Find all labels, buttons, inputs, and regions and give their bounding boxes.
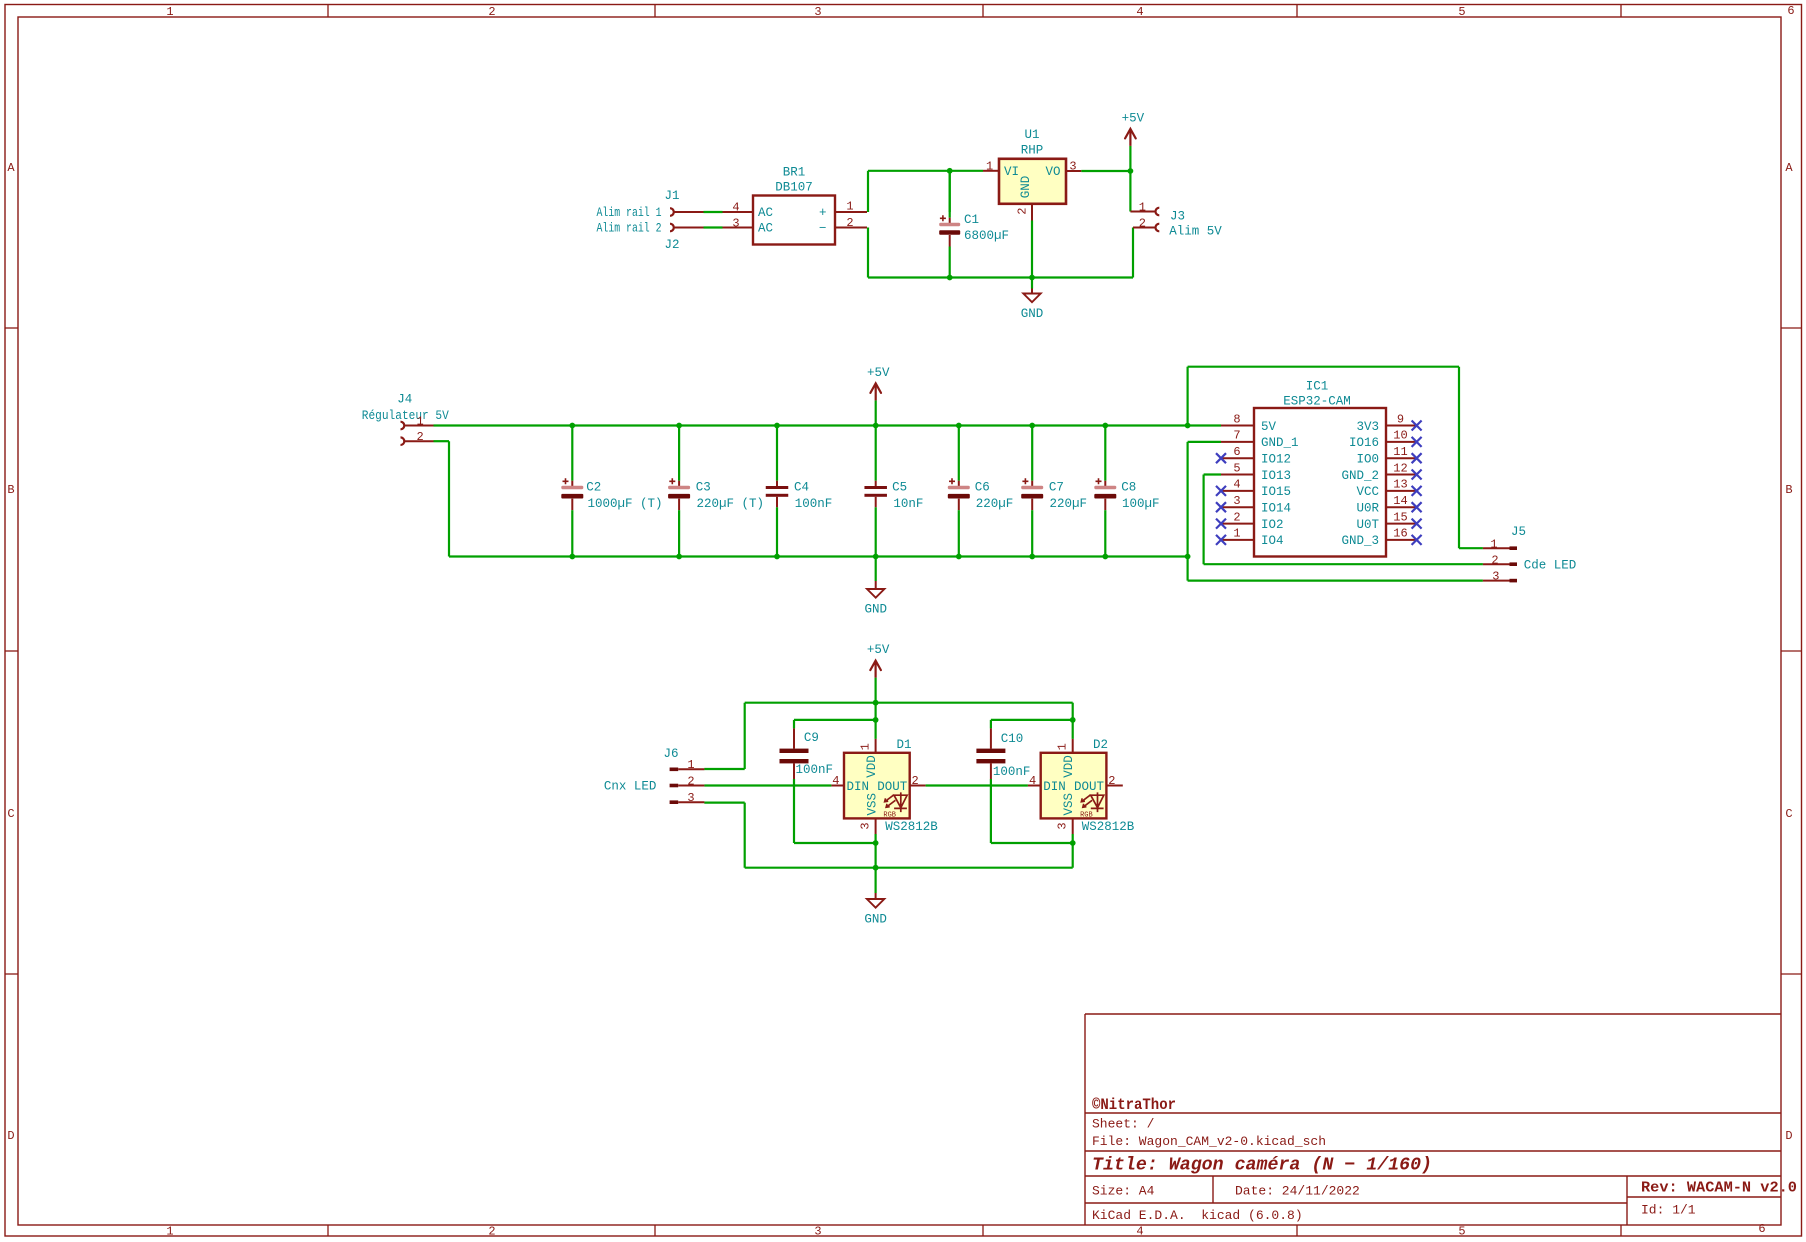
svg-text:1: 1 [1233,527,1240,541]
svg-text:C7: C7 [1049,481,1064,495]
svg-text:Alim 5V: Alim 5V [1169,225,1222,239]
svg-text:1: 1 [859,743,873,750]
svg-text:2: 2 [1491,554,1498,568]
svg-text:GND: GND [1021,307,1044,321]
svg-text:Alim rail 2: Alim rail 2 [597,222,662,236]
svg-text:3V3: 3V3 [1356,420,1379,434]
svg-text:100nF: 100nF [993,765,1031,779]
svg-text:C6: C6 [975,481,990,495]
svg-text:D: D [7,1129,14,1143]
svg-text:6: 6 [1758,1222,1765,1236]
svg-text:4: 4 [732,201,739,215]
svg-text:3: 3 [1233,494,1240,508]
svg-text:KiCad E.D.A. kicad (6.0.8): KiCad E.D.A. kicad (6.0.8) [1092,1208,1303,1223]
svg-text:Sheet: /: Sheet: / [1092,1117,1155,1132]
svg-text:GND: GND [864,603,887,617]
svg-text:J2: J2 [664,238,679,252]
svg-text:C5: C5 [892,481,907,495]
svg-text:5: 5 [1233,461,1240,475]
svg-text:J5: J5 [1511,525,1526,539]
svg-text:3: 3 [814,5,821,19]
svg-text:+5V: +5V [1122,111,1145,125]
svg-text:1: 1 [846,200,853,214]
svg-text:D2: D2 [1093,738,1108,752]
svg-text:10: 10 [1393,429,1407,443]
svg-text:14: 14 [1393,494,1407,508]
svg-text:Date: 24/11/2022: Date: 24/11/2022 [1235,1184,1360,1199]
svg-text:IO13: IO13 [1261,469,1291,483]
svg-text:1: 1 [416,414,423,428]
svg-text:5: 5 [1458,1225,1465,1239]
svg-text:VI: VI [1004,165,1019,179]
svg-text:100µF: 100µF [1122,497,1160,511]
svg-text:16: 16 [1393,527,1407,541]
svg-text:VDD: VDD [1062,755,1076,778]
svg-text:IO2: IO2 [1261,518,1284,532]
svg-text:2: 2 [416,430,423,444]
svg-text:2: 2 [911,774,918,788]
svg-text:100nF: 100nF [796,763,834,777]
svg-text:D1: D1 [896,738,911,752]
svg-text:VO: VO [1045,165,1060,179]
svg-text:1000µF (T): 1000µF (T) [588,497,663,511]
svg-text:RGB: RGB [883,812,896,820]
svg-text:GND: GND [1019,176,1033,199]
svg-text:J3: J3 [1170,210,1185,224]
svg-text:VDD: VDD [865,755,879,778]
svg-text:A: A [7,161,15,175]
svg-text:12: 12 [1393,461,1407,475]
svg-text:IO15: IO15 [1261,485,1291,499]
svg-text:D: D [1785,1129,1792,1143]
svg-text:A: A [1785,161,1793,175]
svg-text:IO16: IO16 [1349,436,1379,450]
svg-text:2: 2 [488,5,495,19]
svg-text:3: 3 [732,217,739,231]
svg-text:VCC: VCC [1356,485,1379,499]
svg-text:C10: C10 [1001,732,1024,746]
svg-text:2: 2 [1016,207,1030,214]
svg-text:WS2812B: WS2812B [1082,820,1135,834]
svg-text:©NitraThor: ©NitraThor [1092,1096,1176,1114]
svg-text:2: 2 [1139,216,1146,230]
svg-text:4: 4 [1136,1225,1143,1239]
svg-text:Cnx LED: Cnx LED [604,780,657,794]
svg-text:GND_3: GND_3 [1341,534,1379,548]
svg-text:3: 3 [687,791,694,805]
svg-text:1: 1 [166,1225,173,1239]
svg-text:6: 6 [1787,4,1794,18]
svg-text:1: 1 [1490,538,1497,552]
svg-text:2: 2 [488,1225,495,1239]
svg-text:Cde LED: Cde LED [1524,558,1577,572]
svg-text:B: B [7,483,14,497]
svg-text:Title: Wagon caméra (N − 1/160: Title: Wagon caméra (N − 1/160) [1092,1155,1432,1176]
svg-text:RGB: RGB [1080,812,1093,820]
svg-text:3: 3 [1069,159,1076,173]
svg-text:IO4: IO4 [1261,534,1284,548]
svg-text:U0R: U0R [1356,502,1379,516]
svg-text:220µF (T): 220µF (T) [697,497,765,511]
svg-text:5: 5 [1458,5,1465,19]
svg-text:DB107: DB107 [775,180,813,194]
svg-text:DOUT: DOUT [1074,780,1105,794]
svg-text:3: 3 [1492,570,1499,584]
svg-text:Id: 1/1: Id: 1/1 [1641,1203,1696,1218]
svg-text:J1: J1 [664,189,679,203]
svg-text:IO14: IO14 [1261,502,1291,516]
svg-text:GND_2: GND_2 [1341,469,1379,483]
svg-text:+: + [819,206,827,220]
svg-text:15: 15 [1393,510,1407,524]
svg-text:+5V: +5V [867,366,890,380]
svg-text:DIN: DIN [1043,780,1066,794]
svg-text:AC: AC [758,222,773,236]
svg-text:6800µF: 6800µF [964,229,1009,243]
svg-text:GND_1: GND_1 [1261,436,1299,450]
svg-text:C3: C3 [696,481,711,495]
svg-text:3: 3 [859,822,873,829]
svg-text:B: B [1785,483,1792,497]
svg-text:2: 2 [1108,774,1115,788]
svg-text:C9: C9 [804,731,819,745]
svg-text:C8: C8 [1121,481,1136,495]
svg-text:J6: J6 [663,747,678,761]
svg-text:+5V: +5V [867,643,890,657]
svg-text:4: 4 [1136,5,1143,19]
svg-text:IO0: IO0 [1356,453,1379,467]
svg-text:3: 3 [1055,822,1069,829]
svg-text:GND: GND [864,913,887,927]
svg-text:U0T: U0T [1356,518,1379,532]
svg-text:BR1: BR1 [783,165,806,179]
svg-text:220µF: 220µF [976,497,1014,511]
svg-text:1: 1 [986,159,993,173]
svg-text:ESP32-CAM: ESP32-CAM [1283,395,1351,409]
svg-text:1: 1 [1139,200,1146,214]
svg-text:J4: J4 [397,392,412,406]
svg-text:13: 13 [1393,478,1407,492]
svg-text:1: 1 [1055,743,1069,750]
svg-text:9: 9 [1397,412,1404,426]
svg-text:2: 2 [1233,510,1240,524]
svg-text:10nF: 10nF [893,497,923,511]
svg-text:8: 8 [1233,412,1240,426]
svg-text:RHP: RHP [1021,144,1044,158]
svg-text:11: 11 [1393,445,1407,459]
svg-text:2: 2 [846,216,853,230]
svg-text:5V: 5V [1261,420,1277,434]
svg-text:2: 2 [687,774,694,788]
svg-text:C: C [1785,807,1792,821]
svg-text:100nF: 100nF [795,497,833,511]
svg-text:Size: A4: Size: A4 [1092,1184,1155,1199]
svg-text:Rev: WACAM-N v2.0: Rev: WACAM-N v2.0 [1641,1181,1797,1197]
svg-text:4: 4 [1233,478,1240,492]
svg-text:AC: AC [758,206,773,220]
svg-text:VSS: VSS [1062,793,1076,816]
svg-text:VSS: VSS [865,793,879,816]
svg-text:C2: C2 [586,481,601,495]
svg-text:4: 4 [832,774,839,788]
svg-text:IO12: IO12 [1261,453,1291,467]
svg-text:1: 1 [687,758,694,772]
svg-text:3: 3 [814,1225,821,1239]
svg-text:7: 7 [1233,429,1240,443]
svg-text:C: C [7,807,14,821]
svg-text:6: 6 [1233,445,1240,459]
svg-text:WS2812B: WS2812B [885,820,938,834]
svg-text:220µF: 220µF [1050,497,1088,511]
svg-text:File: Wagon_CAM_v2-0.kicad_sch: File: Wagon_CAM_v2-0.kicad_sch [1092,1134,1326,1149]
svg-text:−: − [819,222,827,236]
svg-text:DOUT: DOUT [877,780,908,794]
svg-text:U1: U1 [1024,128,1039,142]
svg-text:C4: C4 [794,481,809,495]
svg-text:1: 1 [166,5,173,19]
svg-text:Régulateur 5V: Régulateur 5V [362,409,449,423]
svg-text:DIN: DIN [847,780,870,794]
svg-text:C1: C1 [964,213,979,227]
svg-text:IC1: IC1 [1306,379,1329,393]
svg-text:Alim rail 1: Alim rail 1 [597,206,662,220]
